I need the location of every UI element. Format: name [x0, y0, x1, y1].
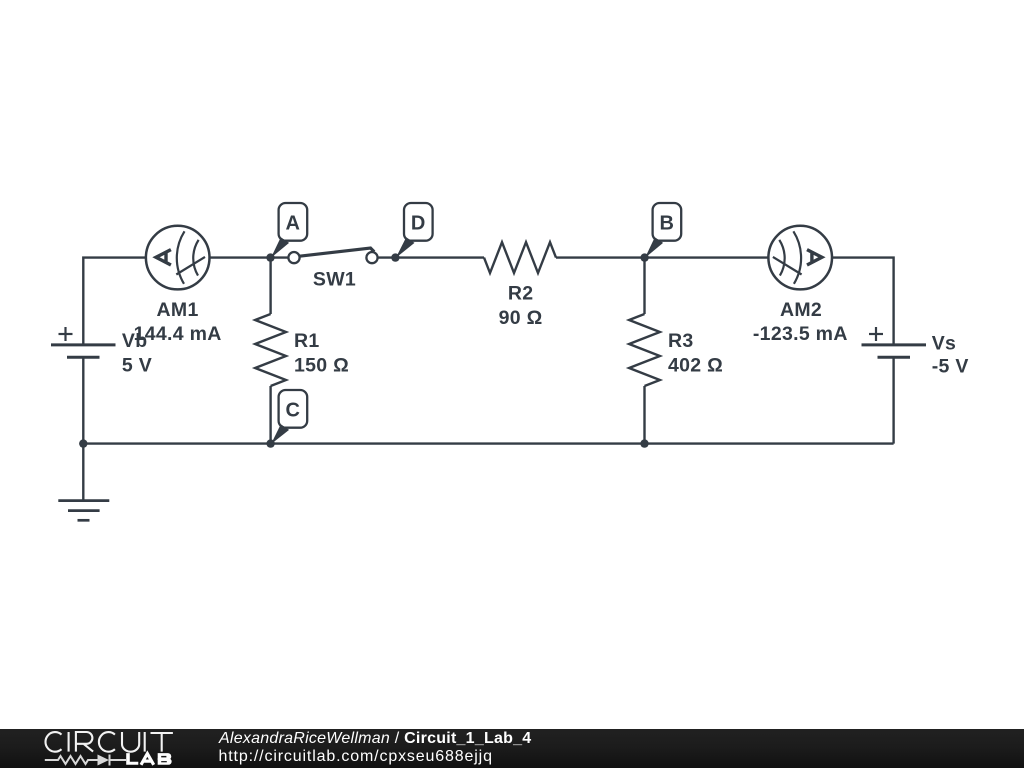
- svg-text:B: B: [660, 212, 675, 234]
- svg-text:150 Ω: 150 Ω: [294, 355, 349, 377]
- switch SW1: [288, 248, 377, 263]
- battery Vb: [51, 345, 116, 357]
- wire AM2 to Vs top: [832, 258, 894, 345]
- svg-text:402 Ω: 402 Ω: [668, 355, 723, 377]
- logo text LAB: A: [141, 754, 154, 765]
- footer line 2: [219, 748, 493, 766]
- logo resistor-diode glyph: [45, 755, 126, 766]
- ground: [58, 501, 109, 521]
- wire AM1 to node A: [209, 256, 270, 258]
- wire node A down to R1: [269, 258, 271, 314]
- footer line 1: [219, 730, 531, 748]
- svg-text:AM2: AM2: [780, 299, 822, 321]
- svg-text:R1: R1: [294, 330, 320, 352]
- wire node D to R2: [395, 256, 484, 258]
- battery Vs plus sign: [869, 327, 883, 341]
- svg-text:D: D: [411, 212, 426, 234]
- footer bar: [0, 729, 1024, 768]
- wire R3 to bottom rail: [643, 386, 645, 444]
- svg-text:R2: R2: [508, 283, 534, 305]
- ammeter AM2: [768, 226, 832, 290]
- svg-text:C: C: [286, 399, 301, 421]
- svg-text:90 Ω: 90 Ω: [499, 307, 543, 329]
- wire Vb bottom to bottom rail: [82, 357, 84, 443]
- junction node D: [391, 253, 399, 261]
- svg-text:Vs: Vs: [932, 333, 956, 355]
- node A flag: [271, 203, 307, 258]
- node C flag: [271, 390, 307, 444]
- wire top-left from Vb to AM1: [83, 258, 146, 345]
- logo text LAB: L: [126, 753, 138, 765]
- node D flag: [396, 203, 433, 258]
- svg-text:5 V: 5 V: [122, 355, 152, 377]
- wire bottom rail: [83, 442, 893, 444]
- wire node A to SW1 left terminal: [271, 256, 289, 258]
- ammeter AM1: [146, 226, 210, 290]
- wire ground tap: [82, 444, 84, 501]
- junction R3 bottom: [640, 439, 648, 447]
- svg-text:R3: R3: [668, 330, 694, 352]
- svg-text:A: A: [286, 212, 301, 234]
- wire R1 to node C: [269, 386, 271, 444]
- svg-text:-5 V: -5 V: [932, 356, 969, 378]
- resistor R1: [255, 314, 286, 386]
- CircuitLab logo wordmark CIRCUIT: [0, 729, 200, 768]
- resistor R3: [629, 314, 660, 386]
- wire SW1 right terminal to node D: [378, 256, 396, 258]
- junction bottom-left: [79, 439, 87, 447]
- junction node B: [640, 253, 648, 261]
- svg-text:AM1: AM1: [157, 299, 199, 321]
- wire R2 to node B: [556, 256, 645, 258]
- logo text LAB: B: [158, 753, 172, 765]
- svg-text:Vb: Vb: [122, 330, 148, 352]
- resistor R2: [484, 242, 556, 273]
- node B flag: [645, 203, 681, 258]
- svg-text:SW1: SW1: [313, 269, 356, 291]
- battery Vb plus sign: [59, 327, 73, 341]
- wire Vs bottom to bottom rail: [892, 357, 894, 443]
- wire node B down to R3: [643, 258, 645, 314]
- svg-text:-123.5 mA: -123.5 mA: [753, 323, 848, 345]
- junction node C: [266, 439, 274, 447]
- wire node B to AM2: [645, 256, 769, 258]
- junction node A: [266, 253, 274, 261]
- battery Vs: [862, 345, 927, 357]
